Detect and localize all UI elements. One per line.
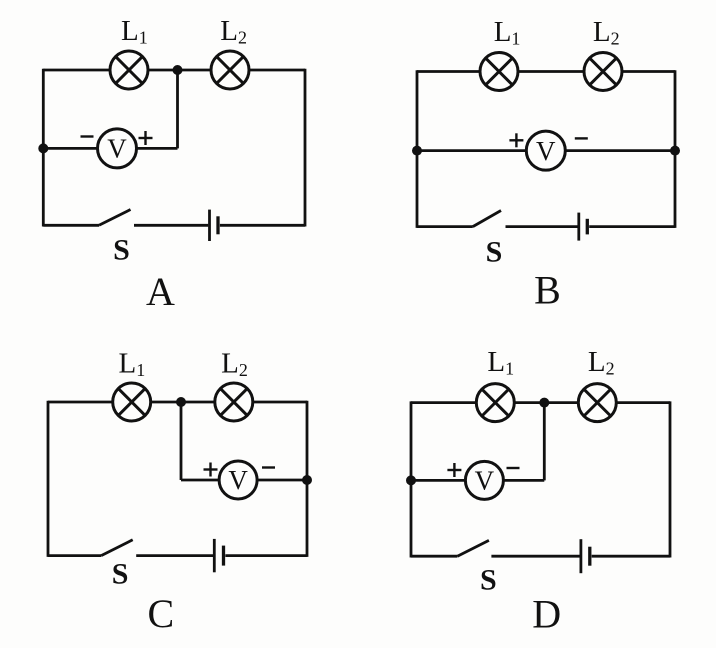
svg-text:L2: L2 [220, 15, 247, 48]
svg-text:S: S [486, 236, 503, 269]
wire C bottom to switch [48, 554, 101, 557]
battery (A) [210, 210, 219, 241]
node right tap (B) [670, 146, 680, 156]
node left tap (A) [38, 143, 48, 153]
node right tap (C) [302, 475, 312, 485]
wire D L2 to right corner [616, 401, 670, 404]
wire D switch to battery [491, 555, 579, 558]
lamp L1 (A) [110, 51, 148, 89]
node junction top (C) [176, 397, 186, 407]
wire D tap to voltmeter [411, 479, 465, 482]
node junction top (D) [539, 398, 549, 408]
svg-text:B: B [534, 268, 561, 313]
svg-text:V: V [536, 136, 556, 166]
battery (C) [214, 539, 223, 572]
wire C top to L1 [48, 401, 113, 404]
wire A left lower [42, 148, 45, 226]
wire A top to L1 [43, 69, 110, 72]
wire D bottom to switch [411, 555, 457, 558]
wire A tap to voltmeter [43, 147, 98, 150]
lamp L1 (B) [480, 53, 518, 91]
svg-text:S: S [112, 558, 129, 591]
wire D left lower [410, 480, 413, 557]
svg-text:L2: L2 [588, 346, 615, 379]
wire A battery to right corner [220, 224, 305, 227]
polarity - (B) [575, 137, 588, 139]
wire D battery to right corner [592, 555, 670, 558]
polarity + (D) [447, 463, 461, 477]
wire A node to voltmeter branch [176, 70, 179, 148]
wire B battery to right corner [589, 225, 675, 228]
svg-text:L2: L2 [593, 16, 620, 49]
circuit D group [406, 346, 670, 637]
node left tap (D) [406, 475, 416, 485]
wire A bottom to switch [43, 224, 99, 227]
lamp L2 (C) [215, 383, 253, 421]
wire C battery to right corner [225, 554, 307, 557]
svg-text:C: C [148, 591, 175, 636]
polarity - (C) [262, 466, 275, 468]
lamp L1 (D) [476, 384, 514, 422]
wire C branch to voltmeter [181, 479, 220, 482]
wire B top to L1 [417, 70, 480, 73]
svg-text:A: A [146, 269, 175, 314]
wire D left upper [410, 401, 413, 480]
svg-text:S: S [113, 234, 130, 267]
circuit A group [38, 15, 305, 314]
switch S (A) blade [99, 210, 131, 226]
wire D between L1 and L2 [514, 401, 578, 404]
battery (B) [579, 213, 588, 241]
wire C left [47, 401, 50, 557]
wire B right [674, 70, 677, 228]
wire A L2 to right corner [249, 69, 305, 72]
svg-text:L2: L2 [221, 348, 248, 381]
voltmeter V (B) [526, 131, 565, 170]
lamp L1 (C) [113, 383, 151, 421]
wire A right [304, 69, 307, 227]
svg-text:S: S [480, 564, 497, 597]
svg-text:V: V [228, 465, 248, 495]
svg-text:D: D [532, 592, 561, 637]
wire A between L1 and L2 [148, 69, 211, 72]
polarity - (A) [81, 135, 94, 137]
wire C between L1 and L2 [151, 401, 215, 404]
svg-text:V: V [475, 466, 495, 496]
switch S (C) blade [101, 540, 133, 556]
wire C switch to battery [136, 554, 213, 557]
circuit C group [48, 348, 312, 637]
svg-text:L1: L1 [119, 348, 146, 381]
wire D voltmeter to branch [503, 479, 544, 482]
wire D branch up to node [543, 403, 546, 481]
lamp L2 (D) [578, 384, 616, 422]
lamp L2 (A) [211, 51, 249, 89]
wire B bottom to switch [417, 225, 473, 228]
node left tap (B) [412, 146, 422, 156]
svg-text:V: V [107, 134, 127, 164]
wire B left [416, 70, 419, 228]
voltmeter V (D) [465, 461, 503, 499]
node junction top (A) [173, 65, 183, 75]
wire A left upper [42, 69, 45, 149]
wire D top to L1 [411, 401, 476, 404]
wire B switch to battery [506, 225, 578, 228]
wire A switch to battery [134, 224, 208, 227]
polarity + (A) [139, 131, 153, 145]
wire B voltmeter to right tap [565, 149, 675, 152]
lamp L2 (B) [584, 53, 622, 91]
svg-text:L1: L1 [121, 15, 148, 48]
wire B between L1 and L2 [518, 70, 584, 73]
circuit B group [412, 16, 680, 313]
voltmeter V (C) [219, 461, 257, 499]
switch S (D) blade [457, 540, 489, 556]
wire C right [306, 401, 309, 557]
wire D right [669, 401, 672, 557]
svg-text:L1: L1 [494, 16, 521, 49]
svg-text:L1: L1 [487, 346, 514, 379]
polarity + (B) [509, 133, 523, 147]
wire C voltmeter to right tap [257, 479, 307, 482]
switch S (B) blade [473, 211, 501, 227]
polarity - (D) [507, 467, 520, 469]
battery (D) [581, 539, 590, 573]
polarity + (C) [204, 463, 218, 477]
wire A voltmeter to branch [136, 147, 178, 150]
wire B tap to voltmeter [417, 149, 526, 152]
wire C node down to voltmeter branch [180, 402, 183, 480]
wire C L2 to right corner [253, 401, 307, 404]
voltmeter V (A) [98, 129, 137, 168]
wire B L2 to right corner [622, 70, 675, 73]
